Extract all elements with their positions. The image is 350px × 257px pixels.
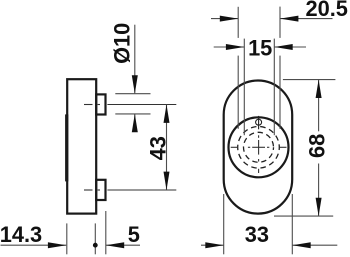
extension line 68 top [283,79,336,81]
dimension 43 label [146,136,171,160]
dimension 14.3 line and arrow [1,242,67,248]
top pin [96,94,105,114]
vertical centerline [258,135,260,173]
svg-text:43: 43 [146,136,171,160]
inner left extension line [243,39,245,136]
outer right extension line [279,7,281,129]
outer dashed circle [238,127,280,169]
dimension 20.5 arrows [211,16,333,22]
left view body [67,79,96,213]
screw symbol [256,116,262,129]
svg-text:33: 33 [245,222,269,247]
dimension 33 label [245,222,269,247]
left view back plate strip [65,114,68,181]
extension line 33 right [291,194,293,254]
bottom pin [96,180,105,200]
dia10 extension line top [115,93,150,95]
svg-text:Ø10: Ø10 [109,23,134,64]
dimension 33 arrows [201,242,337,248]
svg-text:68: 68 [304,134,329,158]
dia10 leader line with arrow down [132,25,138,94]
outer left extension line [237,7,239,129]
extension line 68 bottom [274,215,333,217]
inner right extension line [273,39,275,136]
dimension 15 label [248,35,272,60]
horizontal centerline [231,146,287,148]
extension line right face with dot [93,223,98,254]
obround outline [224,81,293,214]
extension line 33 left [223,194,225,254]
dimension 68 label [304,134,329,158]
inner dashed circle [244,132,274,162]
svg-text:20.5: 20.5 [306,0,348,21]
svg-text:5: 5 [128,222,140,247]
svg-text:14.3: 14.3 [0,222,42,247]
bottom pin centerline [84,189,176,191]
dia10 label [109,23,134,64]
dimension 68 line with arrows [316,80,322,217]
dimension 20.5 label [306,0,348,21]
dia10 arrow up from below [132,114,138,132]
extension line pin face [105,211,107,254]
dimension 15 arrows [214,44,306,50]
svg-text:15: 15 [248,35,272,60]
dimension 43 line with arrows [164,105,170,191]
dimension 5 arrow and tail [106,242,140,248]
top pin centerline [84,104,176,106]
dimension 5 label [128,222,140,247]
main circle [229,117,289,177]
extension line left face [66,223,68,254]
dia10 extension line bottom [115,113,150,115]
dimension 14.3 label [0,222,42,247]
